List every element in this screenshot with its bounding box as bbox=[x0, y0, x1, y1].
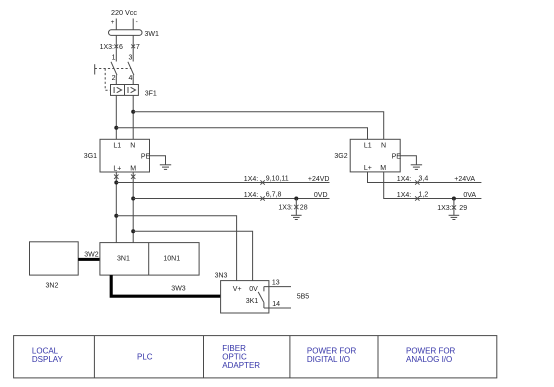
legend cell POWER FOR DIGITAL I/O bbox=[307, 346, 357, 364]
svg-text:6,7,8: 6,7,8 bbox=[266, 191, 282, 198]
adapter 3N3 box bbox=[221, 281, 269, 313]
svg-text:0VA: 0VA bbox=[463, 192, 476, 199]
svg-text:+24VA: +24VA bbox=[454, 176, 475, 183]
svg-text:1X4:: 1X4: bbox=[397, 192, 411, 199]
svg-text:29: 29 bbox=[459, 205, 467, 212]
terminal 1X3: 28 bbox=[278, 205, 307, 212]
label 3W3 bbox=[171, 286, 186, 293]
svg-text:DSPLAY: DSPLAY bbox=[32, 355, 64, 364]
breaker pin 1 bbox=[112, 54, 116, 61]
svg-text:M: M bbox=[380, 165, 386, 172]
svg-text:3G2: 3G2 bbox=[334, 153, 347, 160]
svg-text:V+: V+ bbox=[233, 286, 242, 293]
svg-text:1X3:: 1X3: bbox=[278, 205, 292, 212]
svg-text:3N1: 3N1 bbox=[117, 256, 130, 263]
svg-text:10N1: 10N1 bbox=[163, 256, 180, 263]
wire right pole down to 3G1 N bbox=[132, 95, 134, 139]
label 3N3 bbox=[215, 273, 228, 280]
terminal 1X4: 3,4 bbox=[397, 175, 429, 184]
label 3F1 bbox=[145, 91, 157, 98]
terminal 1X4: 1,2 bbox=[397, 191, 429, 200]
wire 3G1 M down bbox=[132, 172, 134, 243]
polarity + bbox=[111, 19, 115, 26]
svg-text:3W2: 3W2 bbox=[84, 251, 99, 258]
svg-text:+: + bbox=[111, 19, 115, 26]
svg-text:0V: 0V bbox=[249, 286, 258, 293]
wire 3G2 PE to ground bbox=[400, 156, 416, 165]
label 0VD bbox=[314, 192, 328, 199]
cable 3W2 bbox=[78, 258, 100, 261]
terminal 1X4: 9,10,11 bbox=[244, 175, 289, 184]
junction V+ feed bbox=[114, 214, 118, 218]
label 3N2 bbox=[46, 283, 59, 290]
svg-text:1X3:: 1X3: bbox=[437, 205, 451, 212]
label 3G2 bbox=[334, 153, 347, 160]
wire 3G2 M to 0VA bbox=[384, 172, 482, 199]
wire V+ feed to 3N3 bbox=[116, 216, 236, 281]
terminal mark under L+ bbox=[114, 175, 118, 179]
svg-text:9,10,11: 9,10,11 bbox=[266, 175, 289, 182]
breaker pin 4 bbox=[129, 75, 133, 82]
svg-text:3W1: 3W1 bbox=[145, 31, 160, 38]
label 3G1 bbox=[84, 153, 97, 160]
ground PE 3G2 bbox=[411, 165, 422, 170]
wire L feed to 3G2 bbox=[116, 128, 367, 140]
breaker pole blade left bbox=[111, 62, 117, 75]
wire N feed to 3G2 bbox=[133, 112, 384, 140]
svg-text:1,2: 1,2 bbox=[419, 191, 429, 198]
svg-text:3: 3 bbox=[129, 54, 133, 61]
junction +24VD bbox=[114, 181, 118, 185]
svg-text:220 Vcc: 220 Vcc bbox=[111, 8, 137, 17]
polarity - bbox=[136, 19, 138, 26]
power supply 3G1 bbox=[100, 139, 151, 172]
wire pole2 to trip unit bbox=[132, 75, 134, 84]
svg-text:ANALOG I/O: ANALOG I/O bbox=[406, 355, 452, 364]
svg-text:N: N bbox=[381, 143, 386, 150]
legend table bbox=[14, 336, 497, 378]
svg-text:5B5: 5B5 bbox=[297, 293, 310, 300]
breaker 3F1 trip unit boxes bbox=[111, 85, 139, 96]
svg-text:2: 2 bbox=[112, 75, 116, 82]
svg-text:6: 6 bbox=[119, 44, 123, 51]
breaker pin 2 bbox=[112, 75, 116, 82]
junction 0V feed bbox=[131, 229, 135, 233]
svg-text:3W3: 3W3 bbox=[171, 286, 186, 293]
terminal 1X3:7 bbox=[131, 44, 140, 51]
junction L feed bbox=[114, 126, 118, 130]
pin 13 bbox=[272, 279, 280, 286]
supply label 220 Vcc bbox=[111, 8, 137, 17]
wire N from supply bbox=[132, 19, 134, 62]
legend cell POWER FOR ANALOG I/O bbox=[406, 346, 456, 364]
legend cell LOCAL DSPLAY bbox=[32, 346, 64, 364]
svg-text:POWER FOR: POWER FOR bbox=[307, 346, 357, 355]
svg-text:DIGITAL I/O: DIGITAL I/O bbox=[307, 355, 350, 364]
wire left pole down to 3G1 L1 bbox=[115, 95, 117, 139]
svg-text:0VD: 0VD bbox=[314, 192, 328, 199]
label +24VA bbox=[454, 176, 475, 183]
breaker actuator bar bbox=[94, 64, 96, 74]
junction 0VD bbox=[131, 197, 135, 201]
relay contact 3K1 bbox=[258, 287, 291, 308]
junction 0VD ground tap bbox=[294, 197, 298, 201]
svg-text:POWER FOR: POWER FOR bbox=[406, 346, 456, 355]
svg-text:1: 1 bbox=[112, 54, 116, 61]
wire pole1 to trip unit bbox=[115, 75, 117, 84]
svg-text:L1: L1 bbox=[113, 143, 121, 150]
svg-text:PE: PE bbox=[141, 154, 151, 161]
terminal 1X3:6 bbox=[100, 44, 123, 51]
svg-text:-: - bbox=[136, 19, 138, 26]
net 0VD line bbox=[133, 198, 329, 200]
ground PE 3G1 bbox=[160, 165, 171, 170]
svg-text:N: N bbox=[130, 143, 135, 150]
wire 0VA to ground bbox=[453, 199, 455, 216]
net +24VD line bbox=[116, 182, 329, 184]
label 0VA bbox=[463, 192, 476, 199]
svg-text:1X3:: 1X3: bbox=[100, 44, 114, 51]
svg-text:L+: L+ bbox=[113, 165, 121, 172]
wire 3G2 L+ to +24VA bbox=[368, 172, 482, 183]
power supply 3G2 bbox=[350, 139, 401, 172]
svg-text:PE: PE bbox=[392, 154, 402, 161]
svg-text:+24VD: +24VD bbox=[308, 176, 330, 183]
ground 1X3 29 bbox=[449, 215, 460, 219]
breaker pole blade right bbox=[128, 62, 134, 75]
svg-text:3N2: 3N2 bbox=[46, 283, 59, 290]
wire 3G1 L+ down bbox=[115, 172, 117, 243]
terminal 1X3: 29 bbox=[437, 205, 467, 212]
svg-text:4: 4 bbox=[129, 75, 133, 82]
pin 14 bbox=[272, 301, 280, 308]
cable 3W3 bbox=[111, 275, 220, 296]
trip linkage dashed vertical bbox=[105, 69, 110, 91]
svg-text:PLC: PLC bbox=[137, 353, 153, 362]
svg-text:1X4:: 1X4: bbox=[244, 192, 258, 199]
label +24VD bbox=[308, 176, 330, 183]
label 5B5 bbox=[297, 293, 310, 300]
svg-text:3N3: 3N3 bbox=[215, 273, 228, 280]
legend cell FIBER OPTIC ADAPTER bbox=[222, 344, 260, 370]
svg-text:14: 14 bbox=[272, 301, 280, 308]
wire 0V feed to 3N3 bbox=[133, 231, 252, 280]
svg-text:M: M bbox=[130, 165, 136, 172]
wire L from supply bbox=[115, 19, 117, 62]
legend cell PLC bbox=[137, 353, 153, 362]
breaker pin 3 bbox=[129, 54, 133, 61]
svg-text:L1: L1 bbox=[364, 143, 372, 150]
terminal 1X4: 6,7,8 bbox=[244, 191, 282, 200]
cable 3W1 bbox=[109, 30, 160, 38]
wire 3G1 PE to ground bbox=[150, 156, 166, 165]
svg-text:3K1: 3K1 bbox=[246, 298, 259, 305]
svg-text:3,4: 3,4 bbox=[419, 175, 429, 182]
breaker linkage dashed bbox=[95, 68, 132, 70]
svg-text:1X4:: 1X4: bbox=[397, 176, 411, 183]
svg-text:L+: L+ bbox=[364, 165, 372, 172]
ground 1X3 28 bbox=[291, 215, 302, 219]
svg-text:13: 13 bbox=[272, 279, 280, 286]
junction 0VA ground tap bbox=[452, 197, 456, 201]
wire 0VD to ground bbox=[295, 199, 297, 216]
label 3W2 bbox=[84, 251, 99, 258]
svg-text:1X4:: 1X4: bbox=[244, 176, 258, 183]
display 3N2 box bbox=[30, 242, 79, 275]
svg-text:3F1: 3F1 bbox=[145, 91, 157, 98]
svg-text:7: 7 bbox=[136, 44, 140, 51]
terminal mark under M bbox=[131, 175, 135, 179]
junction N feed bbox=[131, 110, 135, 114]
svg-text:28: 28 bbox=[300, 205, 308, 212]
PLC 3N1 / 10N1 box bbox=[100, 243, 199, 276]
svg-text:ADAPTER: ADAPTER bbox=[222, 361, 260, 370]
svg-text:3G1: 3G1 bbox=[84, 153, 97, 160]
